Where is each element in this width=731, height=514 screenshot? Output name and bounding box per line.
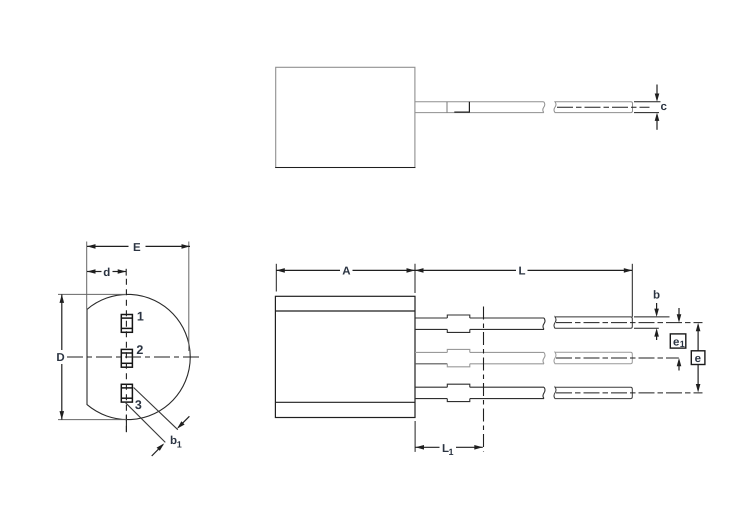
dimension b1 — [124, 388, 189, 457]
lead 1 near-body segment (side view) — [415, 318, 447, 329]
lead 2 outer segment (side view) — [554, 352, 632, 363]
lead 3 (bottom view) — [121, 384, 132, 402]
dimension c — [634, 85, 668, 130]
svg-text:c: c — [661, 101, 668, 113]
lead 3 centerline (side view) — [556, 392, 703, 394]
lead 2 near-body segment (side view) — [415, 352, 447, 363]
dimension d — [87, 267, 126, 279]
lead crimp step (top view) — [447, 102, 469, 113]
body outline (bottom view) — [87, 294, 190, 419]
lead 2 crimp (side view) — [447, 349, 470, 366]
dimension b (lead thickness) — [634, 290, 670, 340]
lead 3 near-body segment (side view) — [415, 387, 447, 398]
lead 3 outer segment (side view) — [554, 387, 632, 398]
lead 1 centerline (side view) — [556, 322, 703, 324]
svg-text:e: e — [695, 353, 701, 365]
svg-text:D: D — [56, 352, 64, 364]
lead 1 mid segment with break (side view) — [470, 318, 545, 329]
svg-text:E: E — [133, 242, 141, 254]
dimension L1 — [415, 421, 483, 457]
lead 3 crimp (side view) — [447, 384, 470, 401]
dimension e (boxed) — [691, 323, 705, 393]
lead segment 2 (top view) — [554, 102, 633, 113]
svg-text:1: 1 — [449, 447, 454, 457]
dimension L — [415, 264, 632, 317]
svg-text:1: 1 — [137, 309, 144, 323]
svg-text:1: 1 — [177, 440, 182, 450]
lead 3 mid segment with break (side view) — [470, 387, 545, 398]
svg-text:1: 1 — [680, 339, 685, 349]
svg-text:L: L — [518, 266, 525, 278]
svg-text:2: 2 — [136, 343, 143, 357]
dimension E — [87, 242, 190, 352]
lead 1 (bottom view) — [121, 315, 132, 333]
horizontal centerline (bottom view) — [67, 356, 203, 358]
lead 2 centerline (side view) — [556, 357, 679, 359]
svg-text:e: e — [673, 336, 679, 348]
svg-text:A: A — [342, 266, 350, 278]
svg-text:3: 3 — [135, 398, 142, 412]
lead 2 (bottom view) — [121, 349, 132, 367]
lead centerline (top view) — [557, 106, 650, 108]
lead segment 1 (top view) — [415, 102, 544, 113]
body outline (top view) — [275, 67, 415, 167]
dimension A — [276, 264, 415, 293]
break squiggle (top view) — [543, 102, 545, 113]
L1 vertical centerline (side view) — [483, 307, 485, 452]
vertical centerline (bottom view) — [125, 279, 127, 433]
svg-text:d: d — [103, 267, 110, 279]
lead 2 mid segment with break (side view) — [470, 352, 545, 363]
dimension D — [56, 294, 126, 419]
lead 1 crimp (side view) — [447, 315, 470, 332]
body outline (side view) — [275, 296, 415, 417]
lead 1 outer segment (side view) — [554, 317, 632, 328]
svg-text:b: b — [653, 290, 660, 302]
dimension e1 (boxed) — [670, 308, 686, 371]
